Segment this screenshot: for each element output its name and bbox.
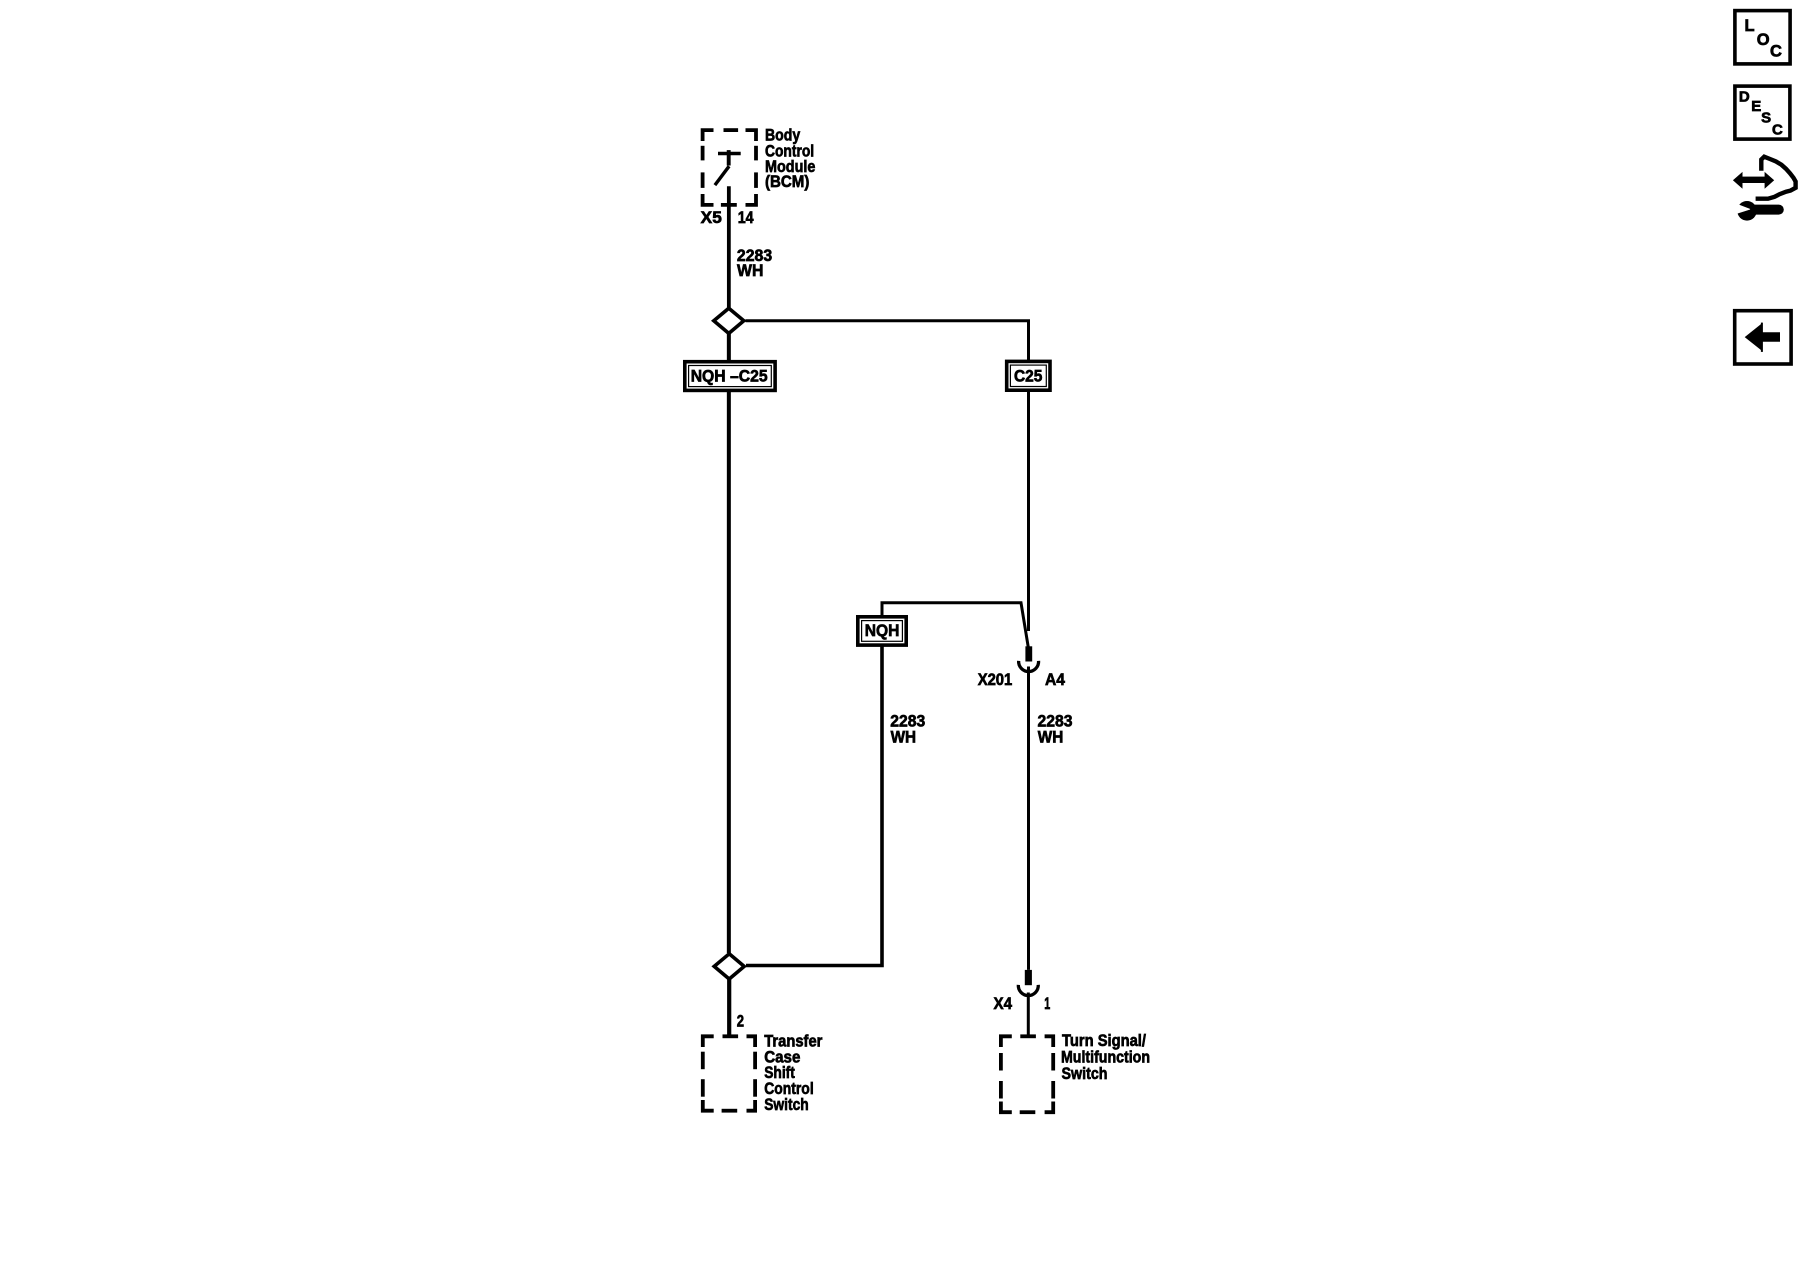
- wire X201 down to X4: [1027, 667, 1030, 970]
- svg-text:1: 1: [1044, 994, 1050, 1013]
- connector X201 terminal pin: [1025, 646, 1032, 661]
- svg-text:L: L: [1745, 17, 1755, 35]
- label box C25: [1007, 361, 1050, 390]
- Body Control Module (BCM) dashed box: [703, 130, 756, 205]
- svg-text:A4: A4: [1045, 670, 1065, 689]
- svg-text:WH: WH: [737, 261, 763, 280]
- splice diamond (upper): [714, 308, 744, 333]
- Turn Signal / Multifunction Switch dashed box: [1001, 1036, 1053, 1112]
- label box NQH-C25: [685, 362, 775, 391]
- wire BCM pin X5-14 down to splice diamond: [727, 186, 731, 307]
- svg-text:O: O: [1757, 31, 1770, 49]
- connector X4 socket arc: [1018, 985, 1038, 996]
- Transfer Case Shift Control Switch dashed box: [703, 1036, 755, 1110]
- svg-text:NQH: NQH: [865, 621, 900, 640]
- connector X4 terminal pin: [1025, 970, 1032, 985]
- DESC nav box letters: [1739, 89, 1783, 139]
- DESC nav box: [1735, 86, 1790, 139]
- svg-text:(BCM): (BCM): [765, 172, 809, 191]
- back arrow nav box: [1735, 311, 1791, 364]
- wire NQH branch: riser, horizontal run and diagonal into X201 pin: [882, 603, 1028, 648]
- svg-text:X5: X5: [701, 208, 722, 227]
- wire from diamond right to C25 branch: [746, 321, 1029, 361]
- svg-text:WH: WH: [1038, 728, 1064, 747]
- wire NQH box down and across to lower splice diamond: [746, 645, 882, 966]
- label box NQH: [858, 617, 906, 645]
- svg-text:Switch: Switch: [1062, 1064, 1108, 1083]
- svg-text:E: E: [1751, 98, 1761, 115]
- svg-text:NQH –C25: NQH –C25: [691, 366, 768, 385]
- connector X201 socket arc: [1019, 661, 1039, 672]
- wire C25 box down to connector X201: [1027, 391, 1030, 632]
- LOC nav box: [1735, 11, 1790, 64]
- svg-text:X4: X4: [994, 994, 1013, 1013]
- svg-text:C: C: [1772, 121, 1783, 138]
- svg-text:D: D: [1739, 89, 1750, 106]
- svg-text:Switch: Switch: [764, 1095, 809, 1114]
- LOC nav box letters: [1745, 17, 1783, 60]
- svg-text:C: C: [1770, 42, 1782, 60]
- svg-text:X201: X201: [978, 670, 1013, 689]
- wire X4 down to Turn Signal switch box, pin 1: [1027, 993, 1030, 1037]
- wire diamond bottom to NQH-C25 label box: [727, 333, 731, 362]
- BCM internal switch symbol: [715, 150, 741, 185]
- wire lower diamond to Transfer Case switch box, pin 2: [727, 978, 731, 1036]
- svg-text:S: S: [1761, 109, 1771, 126]
- svg-text:C25: C25: [1014, 367, 1042, 386]
- wire NQH-C25 box down to lower splice diamond: [727, 391, 731, 954]
- nav icon: double arrow with wrench: [1733, 157, 1796, 221]
- svg-text:14: 14: [738, 208, 754, 227]
- svg-text:2: 2: [737, 1012, 744, 1031]
- splice diamond (lower): [714, 954, 744, 979]
- svg-text:WH: WH: [891, 728, 917, 747]
